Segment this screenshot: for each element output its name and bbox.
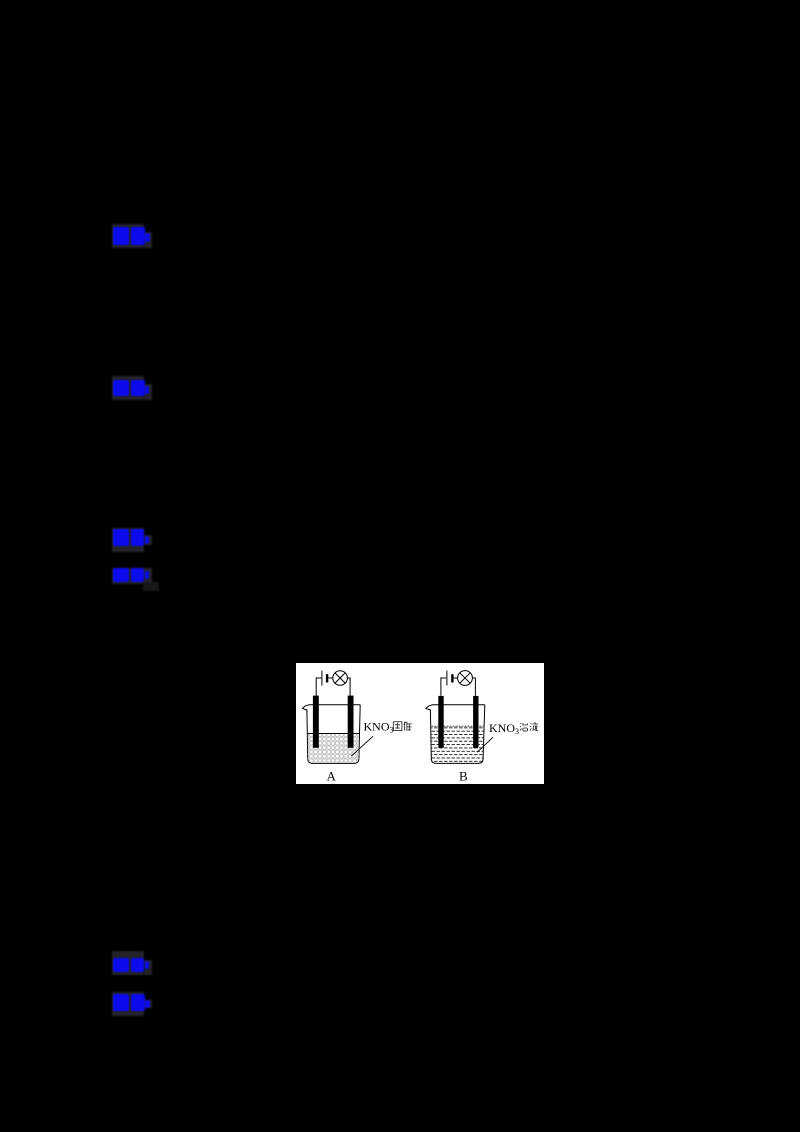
svg-text:KNO: KNO (364, 720, 390, 734)
svg-text:3: 3 (390, 726, 394, 735)
svg-text:3: 3 (515, 727, 519, 736)
svg-text:A: A (327, 769, 337, 784)
svg-text:KNO: KNO (489, 721, 515, 735)
svg-text:B: B (459, 769, 468, 784)
